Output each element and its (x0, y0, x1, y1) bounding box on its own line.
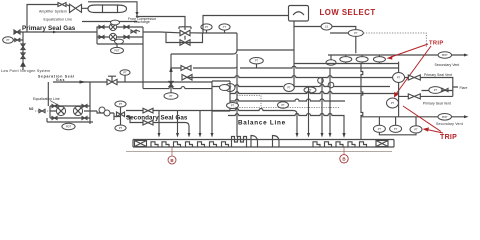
svg-text:Primary Seal Vent: Primary Seal Vent (424, 73, 452, 77)
svg-text:PT: PT (354, 31, 358, 35)
filter F2 (109, 33, 116, 40)
svg-text:PT: PT (397, 76, 401, 80)
wire L1 pcv outlet down (171, 33, 237, 54)
control valve body (180, 30, 190, 36)
controller box (289, 6, 309, 22)
wire L5 (230, 92, 399, 94)
skid valves (52, 105, 87, 120)
svg-text:PT: PT (119, 102, 123, 106)
filter F1 (109, 23, 116, 30)
svg-text:Primary Seal Vent: Primary Seal Vent (423, 102, 451, 106)
wire separation line (48, 82, 212, 106)
instrument PDT below filters (111, 47, 124, 53)
instrument PT bottom column (115, 125, 126, 131)
wire drop x200 (199, 111, 201, 134)
red arrow to row (391, 44, 428, 57)
svg-text:PDIT: PDIT (442, 53, 448, 57)
svg-text:Secondary Vent: Secondary Vent (435, 63, 460, 67)
wire lower vent line (361, 116, 464, 118)
seal brackets left (151, 142, 229, 147)
arrow separation (80, 80, 87, 83)
svg-text:PT: PT (434, 88, 438, 92)
instrument trio below (373, 125, 385, 132)
wire vent riser x361 jogged (361, 64, 363, 140)
svg-text:Secondary Vent: Secondary Vent (436, 122, 463, 126)
casing outline (133, 140, 394, 148)
regulator pair small (99, 107, 105, 113)
valve riser 2 (21, 53, 25, 59)
valve flare small (442, 88, 448, 91)
svg-text:LOW SELECT: LOW SELECT (320, 8, 376, 17)
wire from discharge to PCV (137, 17, 185, 28)
baseplate line (126, 151, 392, 153)
instrument PT after PCV (201, 24, 212, 30)
svg-text:PDT: PDT (66, 125, 72, 129)
stems trio (379, 117, 416, 135)
red arrow to trio (428, 130, 443, 133)
wire booster riser x171 (170, 54, 172, 93)
wire LS to PT (332, 27, 356, 30)
wire nitrogen riser (22, 32, 24, 70)
regulator column (117, 112, 125, 117)
svg-text:PT: PT (6, 38, 10, 42)
svg-text:PT: PT (231, 104, 235, 108)
instrument PT panel (220, 85, 230, 91)
wire balance line (228, 114, 344, 134)
bearing circle B left (168, 156, 176, 164)
skid filter A (56, 106, 65, 115)
wire solid into PT from left (330, 32, 348, 34)
control valve PCV actuator (179, 27, 191, 30)
instrument PT manifold top (393, 73, 405, 83)
seal brackets right (313, 142, 367, 147)
valve on booster riser (169, 82, 173, 87)
wire signal to controller (203, 16, 289, 34)
wire drop x212 (211, 111, 213, 133)
wire filter top branch (97, 27, 160, 44)
step shape 1 (251, 136, 258, 147)
wire drop x308.5 (308, 87, 310, 134)
instrument PT top column (115, 101, 126, 107)
instrument PDT skid (62, 123, 75, 129)
svg-text:N2: N2 (29, 107, 34, 111)
arrow up nitrogen (20, 62, 26, 67)
valve cluster branch valves (99, 26, 129, 39)
instrument PDIT lower (438, 114, 452, 121)
instrument row ellipses (326, 60, 336, 65)
svg-text:Discharge: Discharge (134, 20, 150, 24)
instrument below panel (227, 103, 239, 109)
instrument PT sep (120, 70, 130, 76)
wire vertical x294 LS feed down (293, 27, 295, 87)
svg-text:PT: PT (281, 103, 285, 107)
arrow on PSG line (53, 31, 57, 34)
wire skid outlet (97, 111, 114, 113)
svg-text:PT: PT (255, 59, 259, 63)
wire N2 dotted (35, 110, 52, 112)
wire manifold x398.6 (398, 62, 400, 117)
svg-text:PT: PT (205, 25, 209, 29)
wire primary seal gas header (14, 31, 97, 33)
valve PT isolation (13, 39, 23, 42)
valve V-top on amplifier loop (58, 3, 66, 7)
wire L3 (187, 76, 399, 78)
valve sec 2 (143, 120, 153, 125)
wire dotted signal to right (363, 33, 426, 47)
secondary PT column (114, 107, 121, 125)
wire drop x322 (321, 78, 323, 134)
instrument PT manifold bottom (387, 98, 399, 108)
wire primary vent bottom (399, 95, 453, 97)
valve N2 (39, 109, 45, 112)
skid crossover top (50, 82, 97, 124)
instrument PT mid-low (278, 102, 289, 108)
instrument PT left (3, 37, 14, 43)
wire drop x330 (329, 68, 331, 133)
svg-text:Secondary Seal Gas: Secondary Seal Gas (126, 115, 188, 122)
box mid panel (212, 81, 230, 111)
svg-text:TT: TT (223, 25, 227, 29)
valve vent bottom (408, 94, 420, 99)
svg-text:Primary Seal Gas: Primary Seal Gas (22, 25, 76, 32)
red diagonal long (403, 106, 441, 132)
dashed mid short (237, 96, 340, 108)
red arrow to PT lower (396, 46, 431, 94)
wire secondary line 2 (153, 123, 189, 134)
valve left of PSG text (14, 30, 20, 34)
svg-text:Equalization Line: Equalization Line (33, 97, 60, 101)
wire controller to LS (294, 21, 321, 27)
wire lower mid line (143, 87, 212, 89)
valve riser 1 (21, 44, 25, 50)
instrument small x331 (328, 82, 334, 88)
wire drop x177.5 (177, 111, 179, 134)
labyrinth center (232, 137, 247, 147)
svg-text:PT: PT (378, 127, 382, 131)
svg-text:PT: PT (119, 126, 123, 130)
valve on L2 (181, 66, 191, 71)
wire filter cluster drop (142, 44, 144, 89)
bypass valve (180, 36, 190, 46)
wire main line at PCV (160, 32, 237, 33)
instrument TT after PCV (219, 24, 230, 30)
instrument mid small (115, 39, 124, 44)
wire equalization line (82, 21, 137, 23)
wire L2 secondary header (171, 66, 399, 68)
amplifier body capsule (82, 5, 127, 13)
bypass loop (166, 33, 203, 43)
wire row underline (294, 62, 399, 64)
instrument small x320 (318, 78, 324, 84)
svg-text:LS: LS (325, 25, 328, 29)
svg-text:PT: PT (287, 86, 291, 90)
bearing circle B right (340, 155, 348, 163)
instrument circle on L4 b (284, 84, 295, 92)
wire primary vent top (405, 78, 453, 97)
svg-text:PT: PT (169, 94, 173, 98)
svg-text:Balance Line: Balance Line (238, 120, 286, 127)
instrument LS (321, 23, 332, 30)
instrument circle on L4 a (225, 84, 235, 92)
node dot compressor discharge (136, 15, 138, 17)
wire L4 (212, 85, 390, 87)
skid filter B (73, 106, 82, 115)
svg-text:PT: PT (391, 101, 395, 105)
instrument PT on L2 (250, 58, 264, 64)
op: amplifier venturi (70, 4, 82, 12)
svg-text:Low Point Nitrogen System: Low Point Nitrogen System (1, 69, 50, 73)
svg-text:Amplifier System: Amplifier System (39, 9, 67, 13)
x-box right (376, 141, 388, 147)
instrument PT mid (304, 87, 316, 93)
svg-text:TRIP: TRIP (429, 41, 444, 47)
svg-text:PDIT: PDIT (442, 115, 448, 119)
step shape 2 (273, 136, 280, 147)
wire vertical bus x237 (236, 54, 238, 137)
wire top box left edge (27, 5, 70, 33)
svg-text:PT: PT (123, 71, 127, 75)
valve dense on L2 (182, 75, 192, 81)
valves right of cluster (131, 30, 140, 33)
arrow down into node (135, 12, 138, 16)
wire secondary vent line (328, 55, 464, 60)
skid bottom crossover (47, 118, 93, 122)
wire cross link y50 (237, 49, 294, 51)
svg-text:PDT: PDT (114, 49, 120, 53)
valve sec 1 (143, 108, 153, 113)
svg-text:PT: PT (394, 127, 398, 131)
wire to secondary lines (126, 111, 143, 123)
arrow up booster (169, 66, 172, 72)
svg-text:Equalization Line: Equalization Line (44, 17, 73, 21)
wire drop x159 (158, 111, 160, 134)
wire secondary seal gas line (153, 109, 297, 134)
svg-text:TRIP: TRIP (440, 134, 457, 141)
svg-text:PT: PT (414, 127, 418, 131)
instrument PT flare (429, 87, 442, 94)
instrument PT booster (164, 93, 178, 100)
svg-text:Flare: Flare (460, 86, 468, 90)
wire L6 (230, 99, 345, 101)
instrument PDIT vent (438, 52, 452, 59)
regulator on sep line (107, 76, 117, 85)
instrument PT select (348, 30, 363, 37)
flare branch (422, 87, 459, 91)
wire from amplifier to discharge drop (88, 2, 137, 12)
instrument top small (111, 20, 120, 25)
x-box left (135, 141, 147, 147)
valve vent top (408, 75, 420, 80)
